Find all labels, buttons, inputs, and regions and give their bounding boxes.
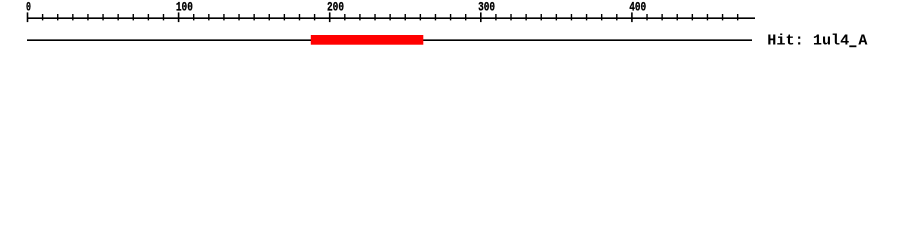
hit label underscore [849,45,856,47]
svg-text:200: 200 [327,0,344,15]
svg-text:100: 100 [176,0,193,15]
svg-text:0: 0 [26,0,31,15]
hit bar (alignment region) [311,35,424,45]
svg-text:Hit: 1ul4: Hit: 1ul4 [767,32,849,49]
hit line [27,39,752,41]
svg-text:A: A [858,32,867,49]
svg-text:400: 400 [629,0,646,15]
ruler axis line [27,17,755,19]
svg-text:300: 300 [478,0,495,15]
major ticks [28,12,632,22]
minor ticks [43,14,738,20]
